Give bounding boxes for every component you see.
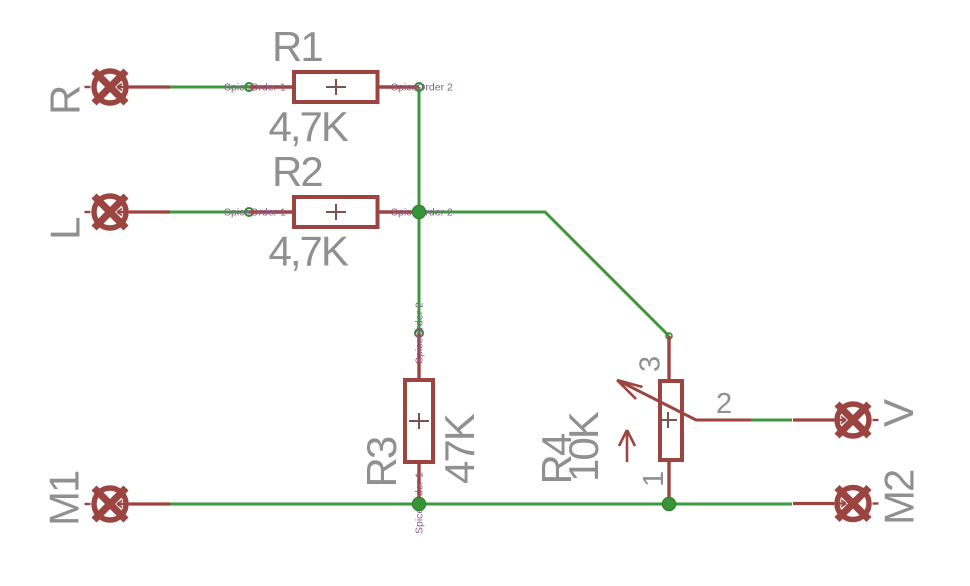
- svg-text:L: L: [42, 218, 89, 240]
- wiper pin 2 of R4: [619, 381, 751, 420]
- svg-text:4,7K: 4,7K: [269, 228, 349, 275]
- pin ring R2 pin1: [245, 208, 253, 216]
- wire R1 pin2 down to junction A: [418, 87, 421, 212]
- port M1: [85, 488, 171, 520]
- svg-text:R3: R3: [358, 437, 405, 487]
- port V: [793, 404, 879, 436]
- svg-text:1: 1: [638, 471, 670, 487]
- svg-text:4,7K: 4,7K: [269, 103, 349, 150]
- pin ring R1 pin2: [415, 83, 423, 91]
- bottom wire M1 to M2: [170, 503, 792, 506]
- junction A: [412, 205, 425, 218]
- svg-text:M2: M2: [876, 470, 923, 525]
- svg-text:3: 3: [635, 356, 667, 372]
- pin ring R4 pin3: [666, 333, 672, 339]
- port M2: [793, 488, 879, 520]
- svg-text:R1: R1: [272, 23, 322, 70]
- wire R to R1: [170, 86, 250, 89]
- resistor R2: [249, 197, 419, 227]
- resistor R3: [405, 333, 433, 504]
- svg-text:SpiceOrder 1: SpiceOrder 1: [224, 207, 286, 219]
- port L: [85, 196, 171, 228]
- svg-text:10K: 10K: [560, 411, 607, 482]
- trimmer R4: [617, 336, 751, 504]
- resistor R1: [249, 72, 419, 102]
- pin ring R3 pin2: [415, 329, 423, 337]
- svg-text:SpiceOrder 2: SpiceOrder 2: [391, 82, 453, 94]
- wire junction A to R3 pin2: [418, 212, 421, 333]
- pin ring R1 pin1: [245, 83, 253, 91]
- svg-text:R: R: [42, 86, 89, 115]
- svg-text:2: 2: [716, 388, 732, 420]
- wire L to R2: [170, 211, 250, 214]
- adjustment arrow of R4: [626, 432, 629, 462]
- junction C: [662, 497, 675, 510]
- junction B: [412, 497, 425, 510]
- wire R4 pin2 to V: [751, 419, 792, 422]
- svg-text:SpiceOrder 2: SpiceOrder 2: [414, 302, 426, 364]
- svg-text:V: V: [875, 399, 922, 427]
- svg-text:47K: 47K: [436, 413, 483, 484]
- port R: [85, 71, 171, 103]
- svg-text:M1: M1: [41, 471, 88, 526]
- wire junction A to R4 pin3: [419, 212, 669, 336]
- svg-text:SpiceOrder 1: SpiceOrder 1: [224, 82, 286, 94]
- svg-text:R2: R2: [272, 148, 322, 195]
